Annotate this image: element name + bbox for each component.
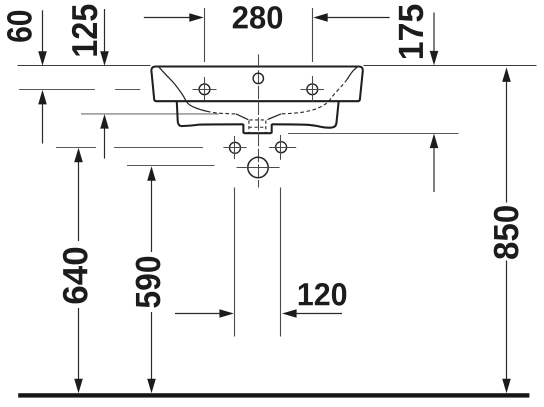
wire: 640-level line seg2 <box>114 147 203 149</box>
dimension 120 left arrow <box>175 313 220 315</box>
bowl curve right solid <box>347 66 358 79</box>
dimension 850 vertical line upper segment <box>506 80 508 203</box>
dimension 125 upper arrow (down to rim line) <box>104 9 106 53</box>
dimension 120 extension line left <box>234 188 236 337</box>
left faucet hole crosshair horizontal <box>193 89 217 91</box>
washbasin upper body outline <box>151 67 362 102</box>
left fixing hole crosshair vertical <box>234 136 236 159</box>
centerline vertical dashed <box>258 54 260 187</box>
drain pipe hidden left dashed <box>248 121 250 133</box>
right faucet hole crosshair horizontal <box>301 89 325 91</box>
right fixing hole crosshair vertical <box>280 135 282 160</box>
dimension 640 up arrow <box>74 148 83 163</box>
label 60 <box>7 11 32 42</box>
wire: 640-level line seg1 <box>56 147 96 149</box>
dimension 120 right arrow <box>297 313 343 315</box>
dimension 120 extension line right <box>280 188 282 337</box>
dimension 175 upper arrow (down to rim line) <box>433 13 435 53</box>
dimension 280 extension line right <box>312 8 314 62</box>
left fixing hole circle <box>230 142 241 153</box>
wire: rim-level extension line left <box>18 65 151 67</box>
drain flange outline <box>243 124 271 133</box>
drain funnel left slant <box>236 114 248 120</box>
dimension 175 lower arrow (up to 175 line) <box>433 147 435 192</box>
drain pipe crosshair horizontal <box>237 167 280 169</box>
dimension 850 down arrow at floor <box>502 379 511 394</box>
wire: 590-level line <box>127 165 215 167</box>
label 120 <box>299 283 347 306</box>
dimension 850 up arrow at rim <box>502 67 511 82</box>
wire: 125-level line <box>81 113 219 115</box>
bowl curve middle-right dashed <box>281 80 347 114</box>
washbasin lower apron outline <box>177 102 339 128</box>
dimension 640 vertical line upper segment <box>78 161 80 242</box>
dimension 640 vertical line lower segment <box>78 308 80 380</box>
right fixing hole circle <box>276 142 287 153</box>
floor line <box>18 393 529 397</box>
drain pipe circle <box>248 157 268 177</box>
right faucet hole crosshair vertical <box>312 76 314 102</box>
tap hole center circle <box>253 73 263 83</box>
right fixing hole crosshair horizontal <box>269 147 296 149</box>
dimension 280 extension line left <box>204 8 206 62</box>
label 850 <box>494 206 519 259</box>
label 640 <box>63 248 88 304</box>
drain funnel right slant <box>268 114 281 120</box>
wire: 60-level line seg1 <box>19 89 95 91</box>
bowl curve middle-left dashed <box>207 111 236 114</box>
dimension 590 down arrow at floor <box>147 379 156 394</box>
dimension 590 up arrow <box>147 166 156 181</box>
dimension 850 vertical line lower segment <box>506 261 508 381</box>
dimension 590 vertical line lower segment <box>151 312 153 380</box>
drain pipe hidden right dashed <box>265 121 267 133</box>
left faucet hole circle <box>199 84 210 95</box>
label 590 <box>136 257 161 308</box>
label 280 <box>233 6 282 29</box>
drain pipe hidden horizontal dashed <box>249 126 266 128</box>
dimension 60 upper arrow (down to rim line) <box>42 10 44 52</box>
drain funnel bottom dashed <box>250 119 267 121</box>
dimension 280 right arrow <box>327 17 390 19</box>
left faucet hole crosshair vertical <box>204 77 206 101</box>
dimension 590 vertical line upper segment <box>151 179 153 252</box>
label 125 <box>72 5 97 56</box>
wire: 60-level line seg2 <box>115 89 140 91</box>
wire: 175 lower level line <box>288 133 459 135</box>
dimension 125 lower arrow (up to 125 line) <box>104 128 106 159</box>
label 175 <box>399 5 423 59</box>
dimension 640 down arrow at floor <box>74 379 83 394</box>
dimension 280 left arrow <box>144 17 190 19</box>
dimension 60 lower arrow (up to 60 line) <box>42 103 44 144</box>
wire: rim-level extension line right <box>364 65 537 67</box>
bowl curve left solid <box>158 66 207 111</box>
left fixing hole crosshair horizontal <box>223 147 246 149</box>
right faucet hole circle <box>307 84 318 95</box>
